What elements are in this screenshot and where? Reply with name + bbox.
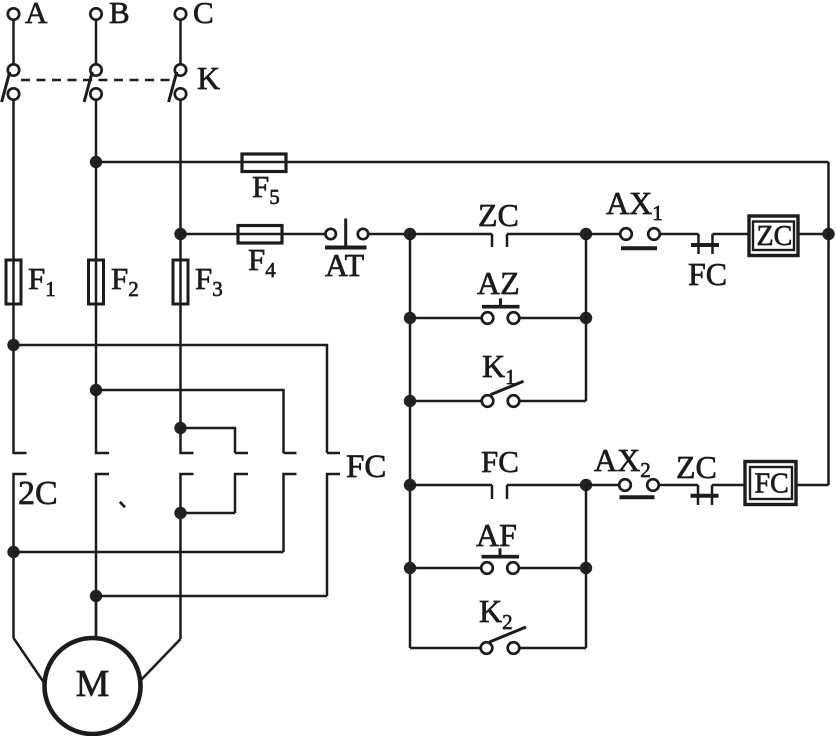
coil FC [745,462,796,505]
node left rail top [404,228,416,240]
wire F4 to pushbutton AT [282,233,326,236]
switch K pole 1 [2,64,20,102]
wire FC contact to node [507,484,586,487]
contact 2C pole 2 upper finger [96,390,109,453]
node FC pole1 to phase C [174,507,186,519]
fuse F3 [173,260,223,304]
wire FC contact to coil ZC [713,233,750,236]
wire row5 to AF [410,567,481,570]
svg-text:AZ: AZ [477,265,520,301]
pushbutton AF (NO) [476,517,519,574]
fuse F2 [89,260,139,304]
wire AT to left rail node [368,233,410,236]
terminal C [175,0,214,30]
node right rail [822,228,834,240]
svg-text:F1: F1 [28,261,56,301]
contact FC pole 3 upper finger [327,449,386,485]
svg-text:AX1: AX1 [606,185,663,225]
contact ZC (NC, row1) [478,197,519,247]
terminal A [8,0,48,30]
svg-text:2C: 2C [18,475,58,512]
contact 2C pole 3 upper finger [181,428,194,453]
node row1 mid rail [580,228,592,240]
wire phase C cross line [181,428,236,453]
contact K1 (knife NO) [482,348,524,407]
svg-text:F2: F2 [111,261,139,301]
wire K1 to mid rail corner [519,400,586,403]
switch K pole 2 [84,64,102,102]
dashed gang line of switch K [21,79,174,82]
contact FC pole 1 upper finger [235,452,248,455]
wire phase B cross line [96,390,284,453]
svg-text:FC: FC [755,469,789,500]
wire ZC contact to coil FC [712,484,745,487]
wire coil ZC to right rail [798,233,829,236]
wire K pole2 to node at F5 line [95,100,98,162]
contact AX1 (NO with bar) [606,185,663,248]
svg-text:M: M [76,663,110,705]
wire F4 line left segment [181,233,239,236]
contact FC pole 2 upper finger [284,452,297,455]
node B-F5 [90,156,102,168]
mid rail lower group [585,485,588,648]
wire row2 to AZ [410,317,482,320]
wire K2 to mid rail corner [519,647,586,650]
wire F5 line left segment [96,161,242,164]
node row4 left [404,479,416,491]
contact FC pole 1 lower finger [235,474,248,513]
wire row6 to K2 [410,647,481,650]
wire AZ to mid rail [519,317,586,320]
wire FC pole1 link [181,512,236,515]
node row2 left [404,312,416,324]
svg-text:AX2: AX2 [594,442,651,482]
svg-text:F4: F4 [248,242,276,282]
contact FC (NC, row4) [481,444,519,499]
contact FC pole 2 lower finger [284,474,297,552]
contact 2C pole 2 lower finger [96,474,109,638]
wire phase A to motor [14,638,44,682]
contact FC pole 3 lower finger [327,474,340,596]
wire AX1 to FC break contact [660,233,699,236]
node row5 left [404,562,416,574]
right rail [827,162,830,485]
svg-text:B: B [109,0,130,30]
svg-text:AT: AT [325,247,365,283]
node FC pole3 to phase B [90,590,102,602]
svg-text:AF: AF [476,517,517,553]
wire B to switch K pole 2 [95,20,98,65]
wire node to fuse F3 [179,234,182,260]
node row3 left [404,395,416,407]
wire node to AX2 [586,484,619,487]
contact 2C pole 1 upper finger [14,345,27,453]
svg-text:K1: K1 [482,348,516,389]
contact 2C pole 1 lower finger [14,474,58,638]
svg-text:FC: FC [481,444,519,479]
pushbutton AZ (NO start) [477,265,520,324]
wire phase A cross line [14,345,328,453]
wire row4 to FC contact [410,484,492,487]
svg-text:K: K [197,60,220,96]
motor M [45,638,141,734]
contact 2C pole 3 lower finger [181,474,194,639]
svg-text:FC: FC [346,449,386,485]
svg-text:F3: F3 [195,261,223,301]
wire C to switch K pole 3 [179,20,182,65]
wire ZC contact to node [507,233,586,236]
wire AX2 to ZC break contact [659,484,698,487]
node row5 right [580,562,592,574]
svg-text:ZC: ZC [676,449,717,485]
fuse F1 [6,260,56,304]
wire phase B to motor [95,596,98,639]
node C-F4 [174,228,186,240]
wire FC pole3 link [96,595,327,598]
wire F1 to node A [12,304,15,345]
stray tick mark [120,502,125,507]
node row2 right [580,312,592,324]
svg-text:ZC: ZC [478,197,519,233]
wire row1 to ZC contact [410,233,492,236]
wire node to fuse F2 [95,162,98,260]
wire FC pole2 link [14,551,284,554]
fuse F4 [238,226,282,283]
contact AX2 (NO with bar) [594,442,659,497]
mid rail upper group [585,234,588,401]
contact K2 (knife NO) [479,593,526,654]
node FC pole2 to phase A [7,546,19,558]
coil ZC [749,216,798,256]
svg-text:K2: K2 [479,593,513,634]
wire row3 to K1 [410,400,482,403]
pushbutton AT (NC stop) [325,219,368,284]
svg-text:ZC: ZC [757,221,793,252]
terminal B [90,0,129,30]
wire K pole3 to node at F4 line [179,100,182,234]
node phase C branch [174,422,186,434]
wire phase C to motor [142,639,181,680]
node row4 mid rail [580,479,592,491]
wire F3 to node C [179,304,182,428]
contact ZC (NC bridge, row4) [676,449,719,505]
svg-text:A: A [25,0,48,30]
node phase A branch [7,339,19,351]
switch K pole 3 [169,60,221,102]
wire F5 line right segment [286,161,829,164]
fuse F5 [242,154,286,209]
wire K pole1 to fuse F1 [12,100,15,260]
wire F2 to node B [95,304,98,390]
svg-text:FC: FC [688,256,727,292]
left control rail [409,234,412,648]
wire A to switch K pole 1 [12,20,15,65]
svg-text:C: C [193,0,214,30]
svg-text:F5: F5 [252,169,280,209]
node phase B branch [90,384,102,396]
wire AF to mid rail [519,567,586,570]
contact FC (NC bridge, row1) [688,234,727,292]
wire coil FC to right rail corner [796,484,829,487]
wire node to AX1 [586,233,620,236]
